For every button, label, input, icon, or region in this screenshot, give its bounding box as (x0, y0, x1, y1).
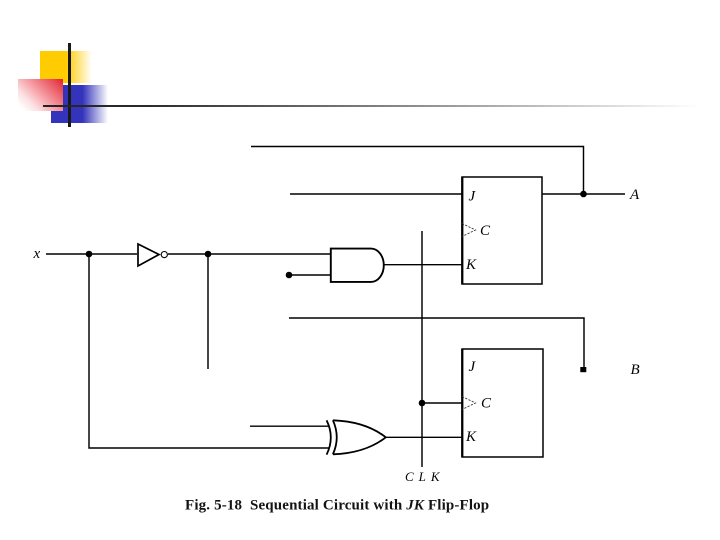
svg-text:A: A (629, 187, 640, 203)
svg-text:C: C (481, 396, 492, 412)
svg-text:J: J (469, 189, 477, 205)
svg-text:Fig. 5-18 Sequential Circuit: Fig. 5-18 Sequential Circuit with JK Fli… (185, 498, 489, 514)
svg-text:C: C (480, 223, 491, 239)
svg-text:CLK: CLK (405, 469, 445, 484)
svg-text:x: x (33, 246, 41, 262)
svg-text:J: J (469, 359, 477, 375)
svg-text:K: K (465, 257, 477, 273)
svg-text:K: K (465, 429, 477, 445)
svg-text:B: B (631, 362, 640, 378)
